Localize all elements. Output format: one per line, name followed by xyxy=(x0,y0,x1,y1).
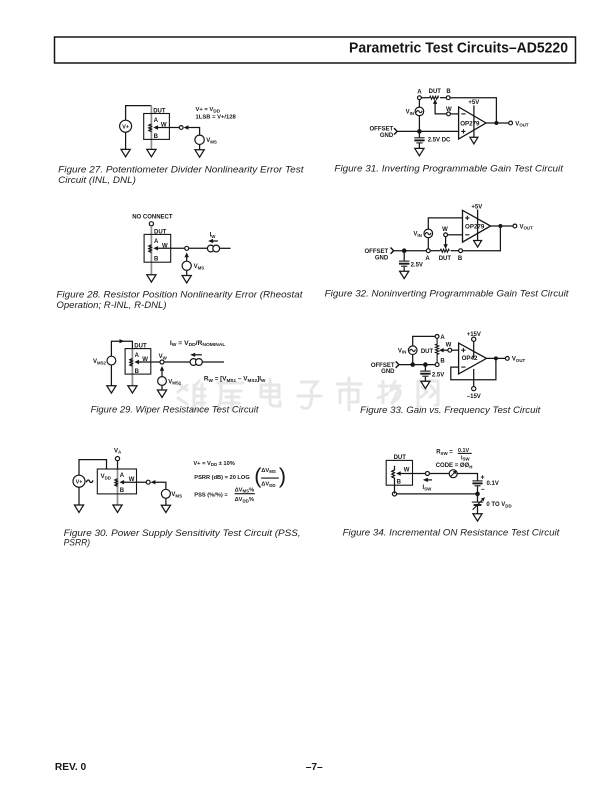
wire A-B feed through DUT xyxy=(150,106,152,150)
watermark 维库电子市场网 xyxy=(178,378,438,410)
source VMS xyxy=(182,261,191,270)
svg-text:A: A xyxy=(135,353,140,359)
supply +15V xyxy=(467,332,481,358)
node A xyxy=(425,249,430,262)
ground (VMS1) xyxy=(157,390,166,397)
ground (op-amp) xyxy=(474,241,482,248)
output junction xyxy=(494,356,498,360)
supply +5V xyxy=(468,100,479,137)
node B xyxy=(435,359,445,367)
svg-text:OFFSET: OFFSET xyxy=(371,363,395,369)
wire VIN to A xyxy=(413,336,436,346)
svg-text:B: B xyxy=(458,256,463,262)
arrow up into node xyxy=(160,366,164,371)
ground (B) xyxy=(147,275,156,282)
arrow ISW xyxy=(423,478,432,482)
wire node to current source xyxy=(189,247,208,249)
node B xyxy=(458,249,463,262)
current arrow right xyxy=(120,339,125,343)
wiper arrow up xyxy=(433,99,437,104)
terminal VOUT xyxy=(505,357,525,364)
wire arrow to VMS xyxy=(186,256,188,261)
output junction xyxy=(494,121,498,125)
svg-text:DUT: DUT xyxy=(421,349,434,355)
wire V+ to ground xyxy=(78,487,80,505)
wire arrow to VMS1 xyxy=(161,370,163,377)
svg-text:GND: GND xyxy=(381,369,395,375)
source VIN xyxy=(408,346,417,355)
svg-text:2.5V: 2.5V xyxy=(411,262,423,268)
source VMS2 xyxy=(107,356,116,365)
DUT box xyxy=(144,234,171,262)
terminal OFFSET GND xyxy=(365,248,394,262)
wiper arrow xyxy=(396,471,425,475)
terminal OFFSET GND xyxy=(371,361,399,375)
svg-text:NO CONNECT: NO CONNECT xyxy=(132,215,173,221)
svg-text:W: W xyxy=(442,227,448,233)
supply +5V xyxy=(471,204,482,240)
op-amp U3 OP42 xyxy=(459,343,487,374)
svg-text:Parametric Test Circuits–AD522: Parametric Test Circuits–AD5220 xyxy=(349,39,568,56)
svg-text:ΔVMS%: ΔVMS% xyxy=(235,487,255,493)
svg-text:PSRR): PSRR) xyxy=(64,538,91,548)
resistor DUT xyxy=(439,249,452,262)
svg-text:REV. 0: REV. 0 xyxy=(55,762,87,773)
op-amp U2 OP279 xyxy=(463,210,491,242)
feedback wire xyxy=(451,358,496,379)
svg-text:VOUT: VOUT xyxy=(512,357,526,363)
svg-text:Operation; R-INL, R-DNL): Operation; R-INL, R-DNL) xyxy=(56,300,166,310)
wire VMS2 to DUT top xyxy=(111,341,132,356)
arrow up into node xyxy=(185,252,189,257)
svg-text:VIN: VIN xyxy=(413,232,421,238)
svg-text:1LSB = V+/128: 1LSB = V+/128 xyxy=(196,115,236,121)
svg-text:–: – xyxy=(481,487,485,494)
wire node to current source xyxy=(164,361,190,363)
variable source 0 TO VDD xyxy=(472,494,512,514)
wire A-B feed through DUT xyxy=(117,469,119,505)
svg-text:OFFSET: OFFSET xyxy=(370,127,394,133)
ground (battery) xyxy=(415,148,424,155)
potentiometer R1 element xyxy=(115,479,118,487)
wire from current source xyxy=(220,247,231,249)
svg-text:VW: VW xyxy=(159,354,168,360)
svg-text:IW = VDD/RNOMINAL: IW = VDD/RNOMINAL xyxy=(170,341,226,347)
node A xyxy=(435,335,445,342)
svg-text:V+ = VDD: V+ = VDD xyxy=(196,107,221,113)
svg-text:2.5V: 2.5V xyxy=(432,372,444,378)
svg-text:V+: V+ xyxy=(76,479,83,485)
source VIN xyxy=(424,229,433,238)
wire W to op-amp xyxy=(450,113,458,115)
junction xyxy=(417,129,422,134)
junction (battery) xyxy=(423,362,428,367)
ground (VMS) xyxy=(182,276,191,283)
ground (V+) xyxy=(74,505,83,512)
svg-text:Figure 29. Wiper Resistance Te: Figure 29. Wiper Resistance Test Circuit xyxy=(91,405,259,415)
wire offset line to B xyxy=(399,364,435,366)
svg-text:A: A xyxy=(425,256,430,262)
resistor DUT xyxy=(429,89,442,99)
node W xyxy=(442,227,448,237)
wiper arrow xyxy=(153,125,179,129)
ground (op-amp) xyxy=(470,137,478,144)
svg-text:DUT: DUT xyxy=(439,256,452,262)
terminal VOUT xyxy=(509,121,529,128)
node W terminal xyxy=(146,480,150,484)
svg-text:2.5V DC: 2.5V DC xyxy=(428,138,451,144)
svg-text:+5V: +5V xyxy=(468,100,479,106)
svg-text:A: A xyxy=(440,335,445,341)
source V+ xyxy=(73,475,85,487)
svg-text:B: B xyxy=(135,369,140,375)
svg-text:W: W xyxy=(446,107,452,113)
output wire xyxy=(487,357,506,359)
potentiometer R1 element xyxy=(149,245,152,253)
svg-text:A: A xyxy=(154,239,159,245)
ground xyxy=(473,514,482,521)
junction (VIN) xyxy=(410,362,415,367)
wiper arrow down xyxy=(443,244,447,249)
svg-text:GND: GND xyxy=(375,255,389,261)
output wire xyxy=(491,225,513,227)
svg-text:VMS: VMS xyxy=(171,492,182,498)
svg-text:Circuit (INL, DNL): Circuit (INL, DNL) xyxy=(58,175,136,185)
AC tilde xyxy=(86,480,93,482)
junction xyxy=(475,492,480,497)
wire VA to A xyxy=(117,461,119,469)
wire to VMS xyxy=(188,128,200,136)
svg-text:OP279: OP279 xyxy=(465,224,485,231)
svg-text:VMS1: VMS1 xyxy=(168,379,182,385)
formula PSS xyxy=(194,487,255,503)
header box xyxy=(55,37,576,63)
source V+ xyxy=(120,120,132,132)
wire VMS2 to ground xyxy=(110,365,112,386)
rheostat element xyxy=(392,466,395,494)
svg-text:0 TO VDD: 0 TO VDD xyxy=(486,502,511,508)
node W terminal xyxy=(179,126,183,130)
svg-text:VMS: VMS xyxy=(206,138,217,144)
wire VMS to ground xyxy=(186,270,188,275)
svg-text:B: B xyxy=(120,488,125,494)
wire V+ to ground xyxy=(125,132,127,149)
battery 2.5V xyxy=(399,251,423,271)
wire to VMS xyxy=(155,482,166,489)
wire offset line to A xyxy=(394,250,427,252)
ground (B) xyxy=(128,386,137,393)
node B xyxy=(446,89,451,100)
DUT box xyxy=(97,469,136,494)
wire A to VIN xyxy=(418,100,420,108)
svg-text:DUT: DUT xyxy=(153,109,166,115)
wiper arrow xyxy=(119,480,146,484)
wire W to op-amp plus xyxy=(452,349,459,351)
svg-text:CODE = ØØH: CODE = ØØH xyxy=(436,463,473,469)
svg-text:VIN: VIN xyxy=(398,348,406,354)
svg-text:–7–: –7– xyxy=(306,762,323,773)
svg-text:B: B xyxy=(154,134,159,140)
ground (B) xyxy=(147,149,156,156)
svg-text:RSW =: RSW = xyxy=(436,450,453,456)
svg-text:A: A xyxy=(417,89,422,95)
wire offset gnd line xyxy=(397,130,458,132)
arrow IW xyxy=(208,239,218,243)
svg-text:Figure 34. Incremental ON Res: Figure 34. Incremental ON Resistance Tes… xyxy=(343,528,560,538)
feedback wire xyxy=(463,228,501,251)
svg-text:PSS (%/%) =: PSS (%/%) = xyxy=(194,493,228,499)
output wire xyxy=(486,122,509,124)
wire A to VIN xyxy=(427,238,429,249)
wire A-B feed through DUT xyxy=(150,226,152,275)
arrow IW xyxy=(190,353,202,357)
node W terminal xyxy=(185,246,189,250)
svg-text:ISW: ISW xyxy=(461,455,470,461)
feedback wire xyxy=(450,98,496,123)
svg-text:Figure 27. Potentiometer Divi: Figure 27. Potentiometer Divider Nonline… xyxy=(58,164,304,174)
svg-text:W: W xyxy=(404,467,410,473)
formula PSRR xyxy=(194,464,286,488)
wire resistor to B xyxy=(440,97,446,99)
svg-text:RW = [VMS1 – VMS2]IW: RW = [VMS1 – VMS2]IW xyxy=(204,377,266,383)
wire meter to battery xyxy=(456,474,477,481)
output junction xyxy=(498,224,502,228)
resistor DUT vertical xyxy=(421,338,439,362)
svg-text:VIN: VIN xyxy=(406,110,414,116)
wiper arrow xyxy=(134,360,160,364)
terminal OFFSET GND xyxy=(370,127,398,139)
wiper arrow xyxy=(439,348,448,352)
svg-text:VDD: VDD xyxy=(101,474,111,480)
node A xyxy=(417,89,422,99)
svg-text:DUT: DUT xyxy=(134,344,147,350)
node VW xyxy=(159,354,168,364)
junction xyxy=(402,248,407,253)
source VMS xyxy=(161,489,170,498)
battery 2.5V DC xyxy=(414,131,451,148)
op-amp U1 OP279 xyxy=(459,107,486,139)
source VMS xyxy=(195,135,204,144)
svg-text:+5V: +5V xyxy=(471,204,482,210)
current arrow into node xyxy=(184,125,189,129)
svg-text:A: A xyxy=(120,473,125,479)
wire resistor to B xyxy=(451,250,459,252)
wiper arrow xyxy=(153,246,184,250)
footer xyxy=(55,762,323,773)
wire VMS1 to ground xyxy=(161,385,163,390)
current arrow into node xyxy=(151,480,156,484)
ground (battery) xyxy=(421,381,430,388)
svg-text:B: B xyxy=(154,256,159,262)
svg-text:Figure 28. Resistor Position: Figure 28. Resistor Position Nonlinearit… xyxy=(56,290,303,300)
ground (V+) xyxy=(121,149,130,156)
source VMS1 xyxy=(158,377,167,386)
wire W to op-amp minus xyxy=(448,234,463,236)
svg-text:A: A xyxy=(154,118,159,124)
wire V+ to DUT VDD xyxy=(79,460,107,476)
svg-text:V+ = VDD ± 10%: V+ = VDD ± 10% xyxy=(193,461,234,467)
svg-text:VMS2: VMS2 xyxy=(93,359,107,365)
svg-text:ΔVDD%: ΔVDD% xyxy=(235,497,254,503)
node B terminal xyxy=(392,492,396,496)
wire A to resistor xyxy=(430,250,440,252)
terminal no-connect xyxy=(149,222,153,226)
svg-text:IW: IW xyxy=(210,233,217,239)
node W xyxy=(446,342,452,352)
battery 0.1V xyxy=(472,475,498,494)
wire A to resistor xyxy=(421,97,429,99)
current source IW xyxy=(207,245,219,252)
node W xyxy=(446,107,452,116)
wire A-B feed through DUT xyxy=(131,349,133,386)
svg-text:V+: V+ xyxy=(122,124,129,130)
wire V+ to node A xyxy=(126,106,152,121)
svg-text:Figure 32. Noninverting Progr: Figure 32. Noninverting Programmable Gai… xyxy=(325,288,569,298)
DUT box xyxy=(125,349,151,375)
svg-text:B: B xyxy=(446,89,451,95)
wire W to wiper xyxy=(445,237,447,245)
svg-text:VA: VA xyxy=(114,448,122,454)
svg-text:OP42: OP42 xyxy=(462,355,478,362)
wire VMS to ground xyxy=(199,145,201,150)
svg-text:DUT: DUT xyxy=(154,229,167,235)
wire node to meter xyxy=(429,473,449,475)
ground (battery) xyxy=(400,271,409,278)
wire B down xyxy=(394,492,396,494)
svg-text:): ) xyxy=(279,464,286,488)
svg-text:B: B xyxy=(440,359,445,365)
svg-text:ΔVDD: ΔVDD xyxy=(261,482,275,488)
terminal VA xyxy=(114,448,122,460)
svg-text:OFFSET: OFFSET xyxy=(365,249,389,255)
svg-text:Figure 30. Power Supply Sensi: Figure 30. Power Supply Sensitivity Test… xyxy=(64,528,301,538)
current source IW xyxy=(190,359,202,366)
wire VIN to offset line xyxy=(418,116,420,132)
svg-text:VMS: VMS xyxy=(194,264,205,270)
svg-text:DUT: DUT xyxy=(394,455,407,461)
source VIN xyxy=(415,107,424,116)
svg-text:GND: GND xyxy=(380,133,394,139)
DUT box xyxy=(386,460,412,485)
svg-text:B: B xyxy=(397,480,402,486)
potentiometer R1 element xyxy=(130,359,133,367)
svg-text:OP279: OP279 xyxy=(460,120,480,127)
ground (VMS) xyxy=(161,505,170,512)
battery 2.5V xyxy=(420,365,444,382)
terminal VOUT xyxy=(513,224,533,231)
wire VIN to line xyxy=(412,355,414,363)
node W terminal xyxy=(425,472,429,476)
svg-text:Figure 31. Inverting Programm: Figure 31. Inverting Programmable Gain T… xyxy=(334,164,563,174)
ammeter ISW xyxy=(449,470,457,478)
formula RSW xyxy=(436,448,472,462)
DUT box xyxy=(144,114,170,140)
svg-text:PSRR (dB) = 20 LOG: PSRR (dB) = 20 LOG xyxy=(194,475,250,481)
svg-text:Figure 33. Gain vs. Frequency: Figure 33. Gain vs. Frequency Test Circu… xyxy=(360,405,541,415)
potentiometer R1 element xyxy=(149,124,152,132)
ground (VMS2) xyxy=(107,386,116,393)
bottom wire B to battery xyxy=(397,493,478,495)
wire VMS to ground xyxy=(165,498,167,505)
svg-text:W: W xyxy=(446,342,452,348)
wiper wire to W xyxy=(435,103,447,114)
svg-text:VOUT: VOUT xyxy=(520,224,534,230)
svg-text:–15V: –15V xyxy=(467,394,481,400)
ground (B) xyxy=(113,505,122,512)
svg-text:DUT: DUT xyxy=(429,89,442,95)
wire VIN to op-amp plus xyxy=(428,218,462,229)
supply -15V xyxy=(467,369,481,400)
svg-text:VOUT: VOUT xyxy=(515,121,529,127)
svg-text:0.1V: 0.1V xyxy=(487,481,499,487)
ground (VMS) xyxy=(195,150,204,157)
svg-text:ΔVMS: ΔVMS xyxy=(261,468,276,474)
svg-text:ISW: ISW xyxy=(423,485,433,491)
wire from current source xyxy=(202,361,224,363)
